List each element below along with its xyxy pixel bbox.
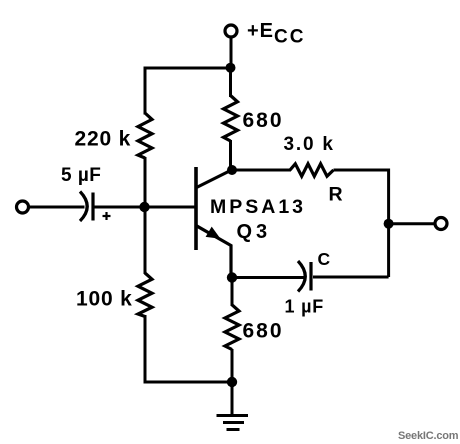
svg-text:680: 680	[243, 320, 284, 343]
resistor 100k	[138, 273, 152, 317]
svg-text:100 k: 100 k	[76, 288, 133, 311]
svg-text:+ECC: +ECC	[247, 20, 305, 48]
wire top rail horizontal and left rail top	[145, 68, 231, 115]
svg-text:3.0 k: 3.0 k	[284, 134, 335, 155]
transistor Q3 collector lead	[197, 171, 231, 188]
wire emitter node to capacitor C	[232, 276, 306, 279]
svg-text:SeekIC.com: SeekIC.com	[398, 430, 459, 442]
wire left rail bottom and bottom rail horizontal	[145, 315, 232, 382]
node emitter junction dot	[227, 272, 237, 282]
resistor 220k	[138, 113, 152, 158]
node VCC junction dot	[226, 63, 236, 73]
wire capacitor to base node	[93, 206, 145, 209]
wire 680 to collector node	[229, 140, 232, 170]
capacitor C curved plate	[298, 261, 305, 292]
wire Ecc terminal to node VCC	[230, 38, 233, 69]
capacitor 5uF curved plate	[80, 192, 87, 222]
wire collector node to resistor R	[232, 169, 291, 172]
wire input to capacitor	[29, 206, 85, 209]
resistor 680 bottom	[225, 305, 239, 350]
input terminal	[17, 201, 29, 213]
wire right rail bottom to capacitor C	[313, 276, 389, 279]
svg-text:220 k: 220 k	[75, 128, 132, 151]
capacitor 5uF flat plate	[91, 193, 94, 221]
label + polarity	[103, 212, 111, 220]
svg-text:5 µF: 5 µF	[61, 165, 101, 186]
wire output node to terminal	[389, 222, 435, 225]
wire 680 to ground node	[231, 349, 234, 382]
svg-text:Q3: Q3	[237, 221, 272, 243]
wire emitter node down to 680	[231, 278, 234, 307]
node ground junction dot	[227, 377, 237, 387]
svg-text:R: R	[329, 184, 343, 206]
svg-text:1 µF: 1 µF	[285, 297, 325, 317]
output terminal	[435, 218, 447, 230]
transistor Q3 emitter arrow	[206, 227, 221, 239]
resistor R 3.0k	[290, 164, 334, 176]
wire VCC node down to 680	[229, 68, 232, 97]
ground	[217, 382, 249, 430]
terminal +Ecc	[225, 25, 237, 37]
transistor Q3 base bar	[194, 167, 198, 250]
transistor Q3 emitter lead	[197, 226, 232, 277]
wire left rail middle	[144, 157, 147, 274]
wire base node to transistor	[145, 206, 195, 209]
node collector junction dot	[227, 165, 237, 175]
wire R to right rail and right rail vertical	[334, 170, 389, 277]
node base junction dot	[139, 202, 149, 212]
node output junction dot	[384, 219, 394, 229]
svg-text:C: C	[318, 249, 331, 269]
svg-text:680: 680	[243, 109, 284, 132]
svg-text:MPSA13: MPSA13	[210, 196, 306, 218]
resistor 680 top	[224, 96, 238, 142]
capacitor C flat plate	[309, 262, 312, 291]
